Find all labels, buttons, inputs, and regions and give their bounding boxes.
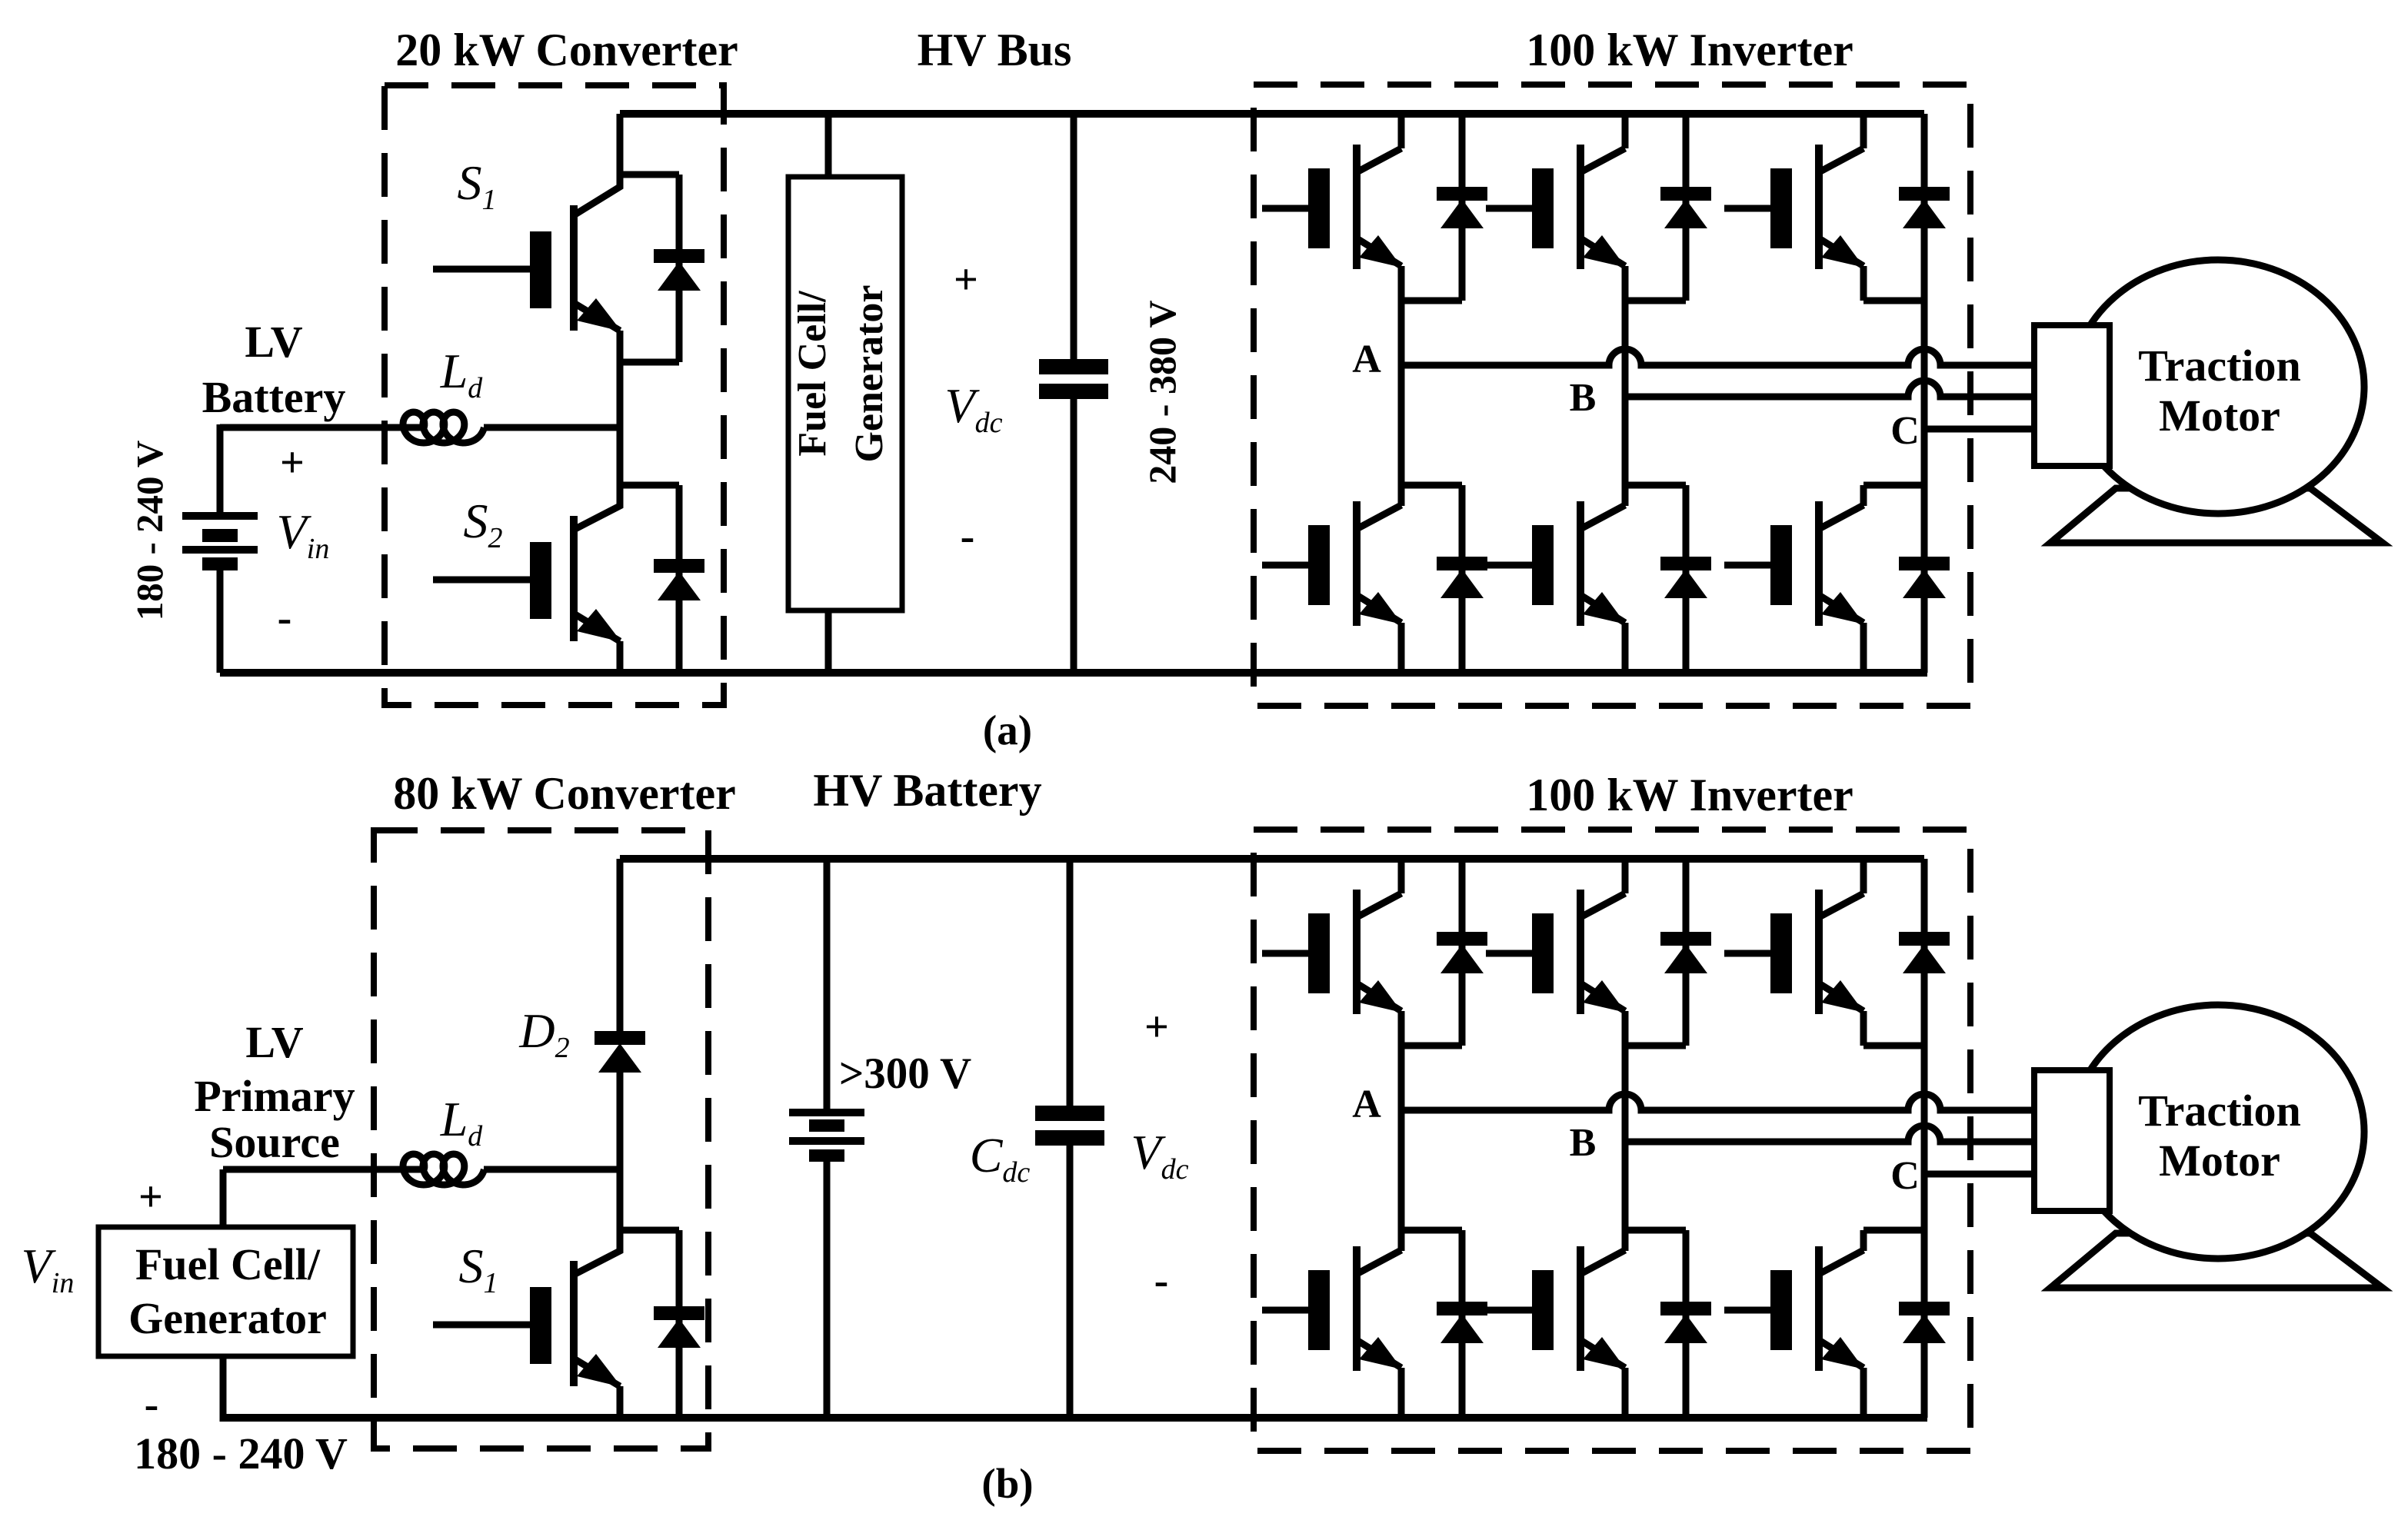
inverter U-b with motor: [220, 830, 2383, 1451]
wire Cdc lead top (b): [1067, 859, 1074, 1106]
svg-text:Source: Source: [209, 1117, 340, 1167]
wire capacitor lead top (a): [1071, 114, 1077, 359]
svg-text:-: -: [1154, 1257, 1169, 1305]
wire S2 emitter (a): [617, 641, 624, 676]
diode S1 freewheel (b): [654, 1306, 704, 1348]
svg-text:(b): (b): [981, 1460, 1033, 1507]
wire fuel cell lead bottom (b): [220, 1356, 227, 1422]
svg-text:Primary: Primary: [194, 1071, 355, 1121]
diode D2 freewheel (a): [654, 559, 704, 600]
battery Vin (a): [182, 512, 258, 570]
svg-text:LV: LV: [245, 317, 302, 367]
svg-text:20 kW Converter: 20 kW Converter: [395, 25, 738, 75]
wire switch node column (b): [617, 1070, 624, 1251]
wire battery lead top (a): [217, 424, 224, 512]
wire D1 connect top (a): [620, 171, 679, 178]
wire DS1 column (b): [676, 1230, 683, 1419]
wire S column middle (a): [617, 331, 624, 506]
svg-text:HV Bus: HV Bus: [918, 25, 1072, 75]
svg-text:100 kW Inverter: 100 kW Inverter: [1526, 770, 1853, 820]
svg-text:240 - 380 V: 240 - 380 V: [1141, 300, 1184, 484]
inductor Ld (b): [403, 1154, 484, 1185]
capacitor Cdc (b): [1035, 1106, 1104, 1146]
svg-text:Fuel Cell/: Fuel Cell/: [791, 291, 834, 457]
wire HV battery lead top (b): [824, 859, 831, 1109]
wire Cdc lead bottom (b): [1067, 1146, 1074, 1419]
wire S2 collector (a): [574, 485, 620, 530]
svg-text:HV Battery: HV Battery: [813, 765, 1041, 816]
wire input to switch node (a): [484, 424, 620, 431]
svg-text:(a): (a): [983, 707, 1032, 753]
wire fuel cell lead bottom (a): [825, 610, 832, 673]
wire input top (a): [220, 424, 425, 431]
IGBT S1 (a): [433, 205, 621, 331]
wire S1 emitter (b): [617, 1386, 624, 1422]
wire D2 anode column (b): [617, 859, 624, 1031]
wire D2 column (a): [676, 485, 683, 673]
svg-text:100 kW Inverter: 100 kW Inverter: [1526, 25, 1853, 75]
wire battery lead bottom (a): [217, 570, 224, 673]
svg-text:+: +: [1144, 1003, 1169, 1051]
IGBT S1 (b): [433, 1261, 621, 1387]
inverter U-a with motor: [220, 85, 2383, 706]
svg-text:>300 V: >300 V: [839, 1049, 971, 1098]
wire D1 column (a): [676, 175, 683, 362]
wire input top (b): [223, 1166, 425, 1173]
wire S1 collector (b): [574, 1230, 620, 1275]
diode D2 (b): [595, 1031, 645, 1073]
svg-text:Battery: Battery: [202, 372, 346, 422]
wire D2 connect (a): [620, 482, 679, 489]
diode D1 (a): [654, 249, 704, 291]
capacitor Vdc (a): [1039, 359, 1108, 399]
wire S1 collector (a): [574, 114, 620, 215]
wire D1 connect bottom (a): [620, 359, 679, 366]
svg-text:Generator: Generator: [848, 284, 891, 462]
wire capacitor lead bottom (a): [1071, 399, 1077, 673]
IGBT S2 (a): [433, 516, 621, 642]
svg-text:180 - 240 V: 180 - 240 V: [128, 441, 171, 621]
svg-text:+: +: [138, 1173, 163, 1221]
svg-text:-: -: [961, 513, 975, 560]
svg-text:+: +: [280, 439, 305, 487]
converter dashed box (b): [374, 830, 708, 1448]
svg-text:LV: LV: [245, 1017, 303, 1067]
inductor Ld (a): [403, 412, 484, 443]
wire input to switch node (b): [484, 1166, 620, 1173]
battery HV (b): [789, 1109, 864, 1162]
svg-text:180 - 240 V: 180 - 240 V: [134, 1429, 348, 1478]
svg-text:Generator: Generator: [128, 1293, 327, 1343]
wire HV battery lead bottom (b): [824, 1161, 831, 1419]
wire DS1 connect (b): [620, 1227, 679, 1234]
fuel cell generator box (b): [98, 1227, 353, 1356]
svg-text:-: -: [145, 1381, 159, 1429]
converter dashed box (a): [385, 85, 724, 705]
svg-text:-: -: [278, 594, 292, 642]
wire fuel cell lead top (a): [825, 114, 832, 177]
svg-text:+: +: [954, 256, 978, 304]
svg-text:Fuel Cell/: Fuel Cell/: [135, 1239, 321, 1289]
svg-text:80 kW Converter: 80 kW Converter: [393, 768, 736, 819]
wire fuel cell lead top (b): [220, 1169, 227, 1227]
fuel cell generator box (a): [788, 177, 902, 610]
